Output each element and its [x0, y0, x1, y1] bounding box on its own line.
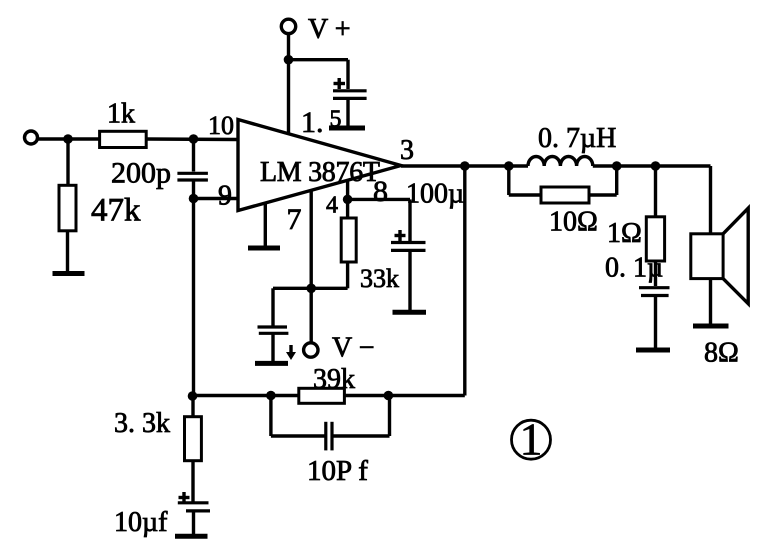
svg-text:33k: 33k [360, 264, 399, 293]
svg-text:9: 9 [218, 181, 232, 212]
svg-text:V −: V − [332, 333, 375, 364]
svg-text:5: 5 [330, 107, 342, 133]
svg-text:1Ω: 1Ω [607, 218, 642, 249]
svg-text:100µ: 100µ [406, 179, 464, 210]
svg-text:39k: 39k [313, 364, 355, 395]
svg-text:47k: 47k [91, 193, 141, 229]
svg-text:V +: V + [308, 14, 351, 45]
svg-text:10µf: 10µf [114, 507, 168, 538]
svg-text:1k: 1k [107, 99, 135, 130]
svg-text:4: 4 [326, 193, 338, 219]
svg-text:10P f: 10P f [307, 455, 368, 487]
svg-text:LM 3876T: LM 3876T [260, 157, 380, 188]
svg-text:7: 7 [287, 203, 302, 236]
svg-text:0. 1µ: 0. 1µ [605, 253, 663, 284]
svg-text:10Ω: 10Ω [549, 207, 598, 238]
svg-text:8: 8 [373, 175, 388, 208]
svg-text:0. 7µH: 0. 7µH [538, 123, 616, 154]
svg-text:3. 3k: 3. 3k [114, 408, 170, 439]
svg-text:8Ω: 8Ω [704, 338, 739, 369]
svg-text:10: 10 [208, 111, 234, 140]
svg-text:1: 1 [520, 415, 543, 465]
svg-text:1.: 1. [301, 106, 324, 139]
svg-text:3: 3 [400, 135, 414, 166]
svg-text:200p: 200p [111, 157, 171, 190]
